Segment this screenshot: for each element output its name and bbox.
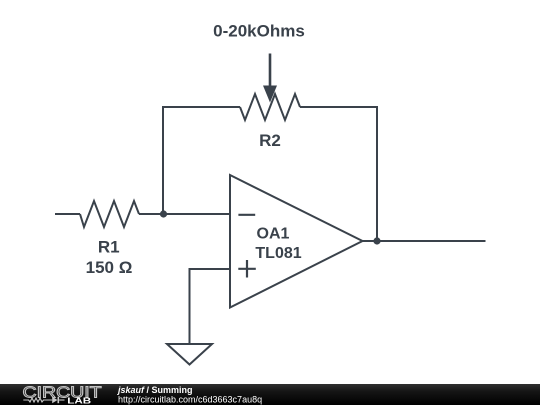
ground symbol	[167, 344, 212, 365]
svg-text:0-20kOhms: 0-20kOhms	[213, 22, 305, 41]
svg-text:OA1: OA1	[257, 226, 290, 243]
svg-text:R2: R2	[259, 131, 281, 150]
potentiometer R2 body	[240, 94, 300, 120]
svg-text:LAB: LAB	[67, 397, 91, 405]
wire non-inverting input horizontal	[190, 269, 231, 344]
node junction at R1 / feedback	[160, 210, 167, 217]
svg-text:R1: R1	[98, 238, 120, 257]
op-amp OA1 triangle	[230, 175, 363, 308]
wire feedback top-right horizontal and right vertical	[300, 107, 377, 241]
svg-text:TL081: TL081	[255, 245, 301, 262]
CircuitLab logo diode	[52, 397, 59, 403]
svg-text:jskauf / Summing: jskauf / Summing	[117, 385, 193, 395]
wire input left segment	[55, 213, 80, 215]
op-amp non-inverting input plus sign	[238, 260, 256, 278]
resistor R1 body	[80, 201, 139, 227]
svg-text:http://circuitlab.com/c6d3663c: http://circuitlab.com/c6d3663c7au8q	[118, 395, 262, 405]
node output junction	[373, 237, 380, 244]
CircuitLab logo squiggle resistor	[23, 398, 52, 402]
wire output	[363, 240, 486, 242]
wire feedback top-left horizontal	[163, 107, 240, 214]
wire R1 to op-amp inverting input	[139, 213, 230, 215]
footer bar	[0, 384, 540, 405]
svg-text:150 Ω: 150 Ω	[86, 258, 133, 277]
op-amp inverting input minus sign	[238, 214, 255, 216]
potentiometer R2 wiper arrow	[263, 54, 277, 103]
